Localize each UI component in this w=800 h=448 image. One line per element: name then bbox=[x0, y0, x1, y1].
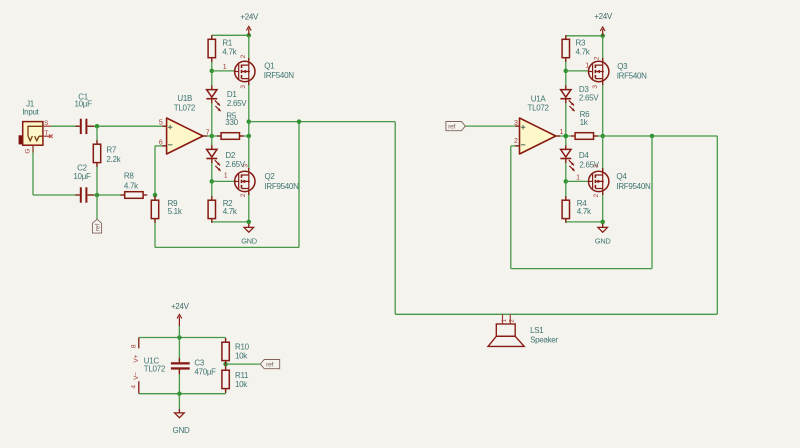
svg-text:V+: V+ bbox=[133, 355, 140, 363]
power +24V left bbox=[248, 29, 250, 36]
wire R3 top stub bbox=[565, 36, 567, 40]
svg-text:U1A: U1A bbox=[531, 95, 547, 104]
svg-text:TL072: TL072 bbox=[174, 104, 196, 113]
wire GND stub right bbox=[602, 222, 604, 228]
wire Q1 drain to +24V bbox=[248, 35, 250, 62]
wire U1B pin6 to feedback column bbox=[155, 145, 167, 147]
resistor R2 4.7k bbox=[211, 196, 213, 200]
node Q4 gate junction bbox=[564, 179, 569, 184]
svg-text:4.7k: 4.7k bbox=[577, 207, 592, 216]
svg-text:GND: GND bbox=[595, 236, 611, 245]
svg-text:5.1k: 5.1k bbox=[168, 207, 183, 216]
svg-text:TL072: TL072 bbox=[528, 103, 550, 112]
wire U1A feedback down bbox=[510, 146, 512, 269]
wire U1C top rail bbox=[139, 337, 226, 339]
svg-text:330: 330 bbox=[225, 118, 238, 127]
node Q4/R4 ground junction bbox=[600, 220, 605, 225]
wire R1 top stub bbox=[211, 35, 213, 39]
wire R11 bottom stub bbox=[225, 389, 227, 394]
wire ref output of divider bbox=[226, 363, 261, 365]
wire divider middle bbox=[225, 361, 227, 371]
wire speaker drop vertical bbox=[394, 122, 396, 315]
svg-text:R7: R7 bbox=[106, 145, 116, 154]
node C2/R7/R8/ref junction bbox=[95, 193, 100, 198]
wire U1A pin2 stub bbox=[511, 145, 520, 147]
wire R4 bottom bbox=[565, 219, 567, 222]
wire R7 top stub bbox=[96, 126, 98, 144]
node Q3 gate junction bbox=[564, 69, 569, 74]
svg-text:D2: D2 bbox=[225, 151, 235, 160]
svg-text:+24V: +24V bbox=[171, 302, 190, 311]
svg-text:ref: ref bbox=[95, 224, 102, 231]
transistor Q4 IRF9540N bbox=[602, 168, 604, 172]
node Q2/R2 ground junction bbox=[247, 220, 252, 225]
node +24V junction right bbox=[600, 34, 605, 39]
svg-text:U1B: U1B bbox=[177, 94, 192, 103]
svg-text:D1: D1 bbox=[227, 90, 237, 99]
svg-text:Speaker: Speaker bbox=[530, 335, 558, 344]
wire ref stub below C2 node bbox=[96, 195, 98, 220]
net label ref at U1A input bbox=[446, 122, 465, 131]
resistor R5 330 bbox=[217, 135, 221, 137]
wire output column to Q2 bbox=[248, 136, 250, 172]
node R8/R9/pin6 junction bbox=[153, 193, 158, 198]
wire Q3 source down right column bbox=[602, 81, 604, 136]
wire S input run J1 to U1B pin5 bbox=[51, 125, 80, 127]
svg-text:IRF9540N: IRF9540N bbox=[265, 182, 300, 191]
wire D4 to R4 bbox=[565, 160, 567, 200]
svg-text:4.7k: 4.7k bbox=[222, 48, 237, 57]
svg-text:TL072: TL072 bbox=[144, 364, 166, 373]
node Q1 gate junction bbox=[210, 69, 215, 74]
svg-text:R3: R3 bbox=[576, 39, 586, 48]
wire ref label to U1A pin3 bbox=[465, 125, 519, 127]
svg-text:3: 3 bbox=[514, 120, 518, 127]
wire +24V rail right bbox=[566, 35, 603, 37]
resistor R4 4.7k bbox=[565, 196, 567, 200]
wire speaker feed right bbox=[506, 313, 717, 315]
svg-text:2.65V: 2.65V bbox=[227, 99, 247, 108]
wire R1 bottom to D1 bbox=[211, 58, 213, 90]
wire D3 to right output node bbox=[565, 101, 567, 150]
wire Q2 gate bbox=[212, 180, 235, 182]
svg-text:2: 2 bbox=[514, 138, 518, 145]
speaker LS1 bbox=[502, 314, 504, 324]
wire Q1 source down / output column bbox=[248, 81, 250, 136]
wire U1A output to R6 bbox=[557, 135, 575, 137]
wire feedback return bottom bbox=[155, 246, 299, 248]
wire Q3 gate bbox=[566, 70, 589, 72]
node right feedback tap junction bbox=[650, 134, 655, 139]
wire R9 bottom to feedback return bbox=[154, 219, 156, 248]
svg-text:GND: GND bbox=[173, 426, 190, 435]
wire C3 bottom stub bbox=[178, 370, 180, 394]
wire U1B output to R5 bbox=[203, 135, 222, 137]
svg-text:Q3: Q3 bbox=[617, 62, 628, 71]
pin S J1 bbox=[43, 125, 51, 127]
svg-text:10µF: 10µF bbox=[74, 99, 92, 108]
resistor R3 4.7k bbox=[565, 35, 567, 39]
wire U1A feedback up to output bbox=[651, 136, 653, 269]
node input junction at C1/R7 bbox=[95, 124, 100, 129]
wire right column to Q4 bbox=[602, 136, 604, 172]
svg-text:IRF540N: IRF540N bbox=[264, 71, 294, 80]
capacitor C2 10uF bbox=[75, 194, 79, 196]
svg-text:6: 6 bbox=[159, 139, 163, 146]
node U1B output junction bbox=[210, 134, 215, 139]
power +24V U1C bbox=[178, 326, 180, 338]
op-amp U1A TL072 bbox=[515, 125, 519, 127]
resistor R7 2.2k bbox=[96, 140, 98, 144]
connector J1 audio jack Input bbox=[19, 135, 24, 144]
svg-text:Q1: Q1 bbox=[264, 61, 275, 70]
power +24V right bbox=[602, 29, 604, 36]
node +24V junction left bbox=[247, 33, 252, 38]
svg-text:7: 7 bbox=[206, 129, 210, 136]
wire R7 bottom stub bbox=[96, 163, 98, 195]
wire Q2 drain to ground node bbox=[248, 191, 250, 222]
wire right output drop vertical bbox=[716, 136, 718, 314]
svg-text:4.7k: 4.7k bbox=[576, 48, 591, 57]
resistor R8 4.7k bbox=[121, 194, 125, 196]
svg-text:G: G bbox=[24, 149, 31, 154]
svg-text:LS1: LS1 bbox=[530, 326, 544, 335]
node right output column junction bbox=[600, 134, 605, 139]
resistor R9 5.1k bbox=[154, 196, 156, 200]
wire Q1 gate bbox=[212, 70, 235, 72]
wire D1 to output node bbox=[211, 101, 213, 150]
resistor R1 4.7k bbox=[211, 35, 213, 39]
wire Q4 gate bbox=[566, 180, 589, 182]
svg-text:+24V: +24V bbox=[240, 13, 259, 22]
svg-text:1: 1 bbox=[576, 175, 580, 182]
wire Q4 drain to ground node bbox=[602, 191, 604, 222]
ground symbol U1C GND bbox=[178, 409, 180, 413]
svg-text:10k: 10k bbox=[235, 380, 248, 389]
transistor Q2 IRF9540N bbox=[248, 168, 250, 172]
svg-text:Input: Input bbox=[22, 107, 39, 116]
ground symbol right GND bbox=[602, 224, 604, 228]
svg-text:2.2k: 2.2k bbox=[106, 155, 121, 164]
wire D2 to R2 bbox=[211, 160, 213, 200]
svg-text:2.65V: 2.65V bbox=[579, 94, 599, 103]
svg-text:Q2: Q2 bbox=[265, 172, 276, 181]
svg-text:ref: ref bbox=[448, 124, 455, 131]
wire C3 top stub bbox=[178, 338, 180, 363]
net label ref at C2 node bbox=[92, 219, 101, 233]
node divider junction bbox=[223, 362, 228, 367]
wire right output run bbox=[603, 135, 718, 137]
LED D3 2.65V bbox=[565, 85, 567, 89]
wire GND stub left bbox=[248, 222, 250, 228]
svg-text:1: 1 bbox=[224, 173, 228, 180]
node C3 top junction bbox=[177, 335, 182, 340]
wire U1A feedback bottom bbox=[511, 268, 652, 270]
wire J1 ground to C2 bbox=[33, 194, 80, 196]
capacitor C1 10uF bbox=[75, 125, 79, 127]
svg-text:R10: R10 bbox=[235, 342, 250, 351]
svg-text:4.7k: 4.7k bbox=[223, 207, 238, 216]
svg-text:1k: 1k bbox=[580, 118, 589, 127]
wire +24V rail left bbox=[212, 34, 249, 36]
svg-text:ref: ref bbox=[266, 362, 273, 369]
svg-text:+24V: +24V bbox=[594, 12, 613, 21]
node right rail output junction bbox=[564, 134, 569, 139]
svg-text:1: 1 bbox=[560, 129, 564, 136]
node U1A output junction bbox=[564, 134, 569, 139]
resistor R10 10k bbox=[225, 338, 227, 342]
svg-text:5: 5 bbox=[159, 119, 163, 126]
op-amp U1B TL072 bbox=[162, 125, 166, 127]
node feedback tap junction bbox=[297, 119, 302, 124]
wire R3 bottom to D3 bbox=[565, 58, 567, 90]
svg-text:10µF: 10µF bbox=[73, 172, 91, 181]
net label ref at divider bbox=[260, 360, 279, 369]
svg-text:470µF: 470µF bbox=[194, 368, 216, 377]
ground symbol left GND bbox=[248, 224, 250, 228]
node Q2 gate junction bbox=[210, 179, 215, 184]
wire feedback return up to output bbox=[298, 122, 300, 248]
wire R10 top stub bbox=[225, 338, 227, 343]
wire left output to speaker drop bbox=[249, 121, 395, 123]
transistor Q1 IRF540N bbox=[248, 58, 250, 62]
LED D4 2.65V bbox=[565, 145, 567, 149]
wire Q3 drain to +24V bbox=[602, 36, 604, 62]
svg-text:GND: GND bbox=[241, 237, 257, 246]
LED D1 2.65V bbox=[211, 85, 213, 89]
capacitor C3 470uF polarized bbox=[178, 358, 180, 362]
svg-text:1: 1 bbox=[585, 63, 589, 70]
svg-text:4.7k: 4.7k bbox=[124, 181, 139, 190]
wire J1 ground down bbox=[32, 145, 34, 195]
wire C2 to R8 through node bbox=[88, 194, 125, 196]
svg-text:C3: C3 bbox=[194, 359, 204, 368]
pin G J1 bbox=[32, 145, 34, 152]
wire U1C bottom rail bbox=[139, 393, 226, 395]
node output column R5 junction bbox=[247, 134, 252, 139]
wire R5 right bbox=[240, 135, 249, 137]
svg-text:IRF540N: IRF540N bbox=[617, 71, 647, 80]
wire feedback column down to R9 bbox=[154, 146, 156, 200]
resistor R11 10k bbox=[225, 366, 227, 370]
svg-text:R1: R1 bbox=[222, 39, 232, 48]
svg-text:IRF9540N: IRF9540N bbox=[616, 182, 651, 191]
wire R6 right bbox=[594, 135, 603, 137]
svg-text:T: T bbox=[44, 130, 48, 137]
wire GND stub U1C bbox=[178, 394, 180, 413]
op-amp power unit U1C TL072 bbox=[138, 338, 140, 349]
wire speaker feed left bbox=[395, 313, 506, 315]
LED D2 2.65V bbox=[211, 145, 213, 149]
wire R2 bottom bbox=[211, 219, 213, 222]
svg-text:D4: D4 bbox=[579, 151, 589, 160]
node C3 bottom junction bbox=[177, 391, 182, 396]
svg-text:Q4: Q4 bbox=[616, 172, 627, 181]
svg-text:R11: R11 bbox=[235, 371, 249, 380]
pin T J1 unconnected bbox=[43, 135, 51, 137]
svg-text:R8: R8 bbox=[124, 172, 134, 181]
resistor R6 1k bbox=[571, 135, 575, 137]
svg-text:1: 1 bbox=[223, 64, 227, 71]
node output column upper junction bbox=[247, 119, 252, 124]
transistor Q3 IRF540N bbox=[602, 58, 604, 62]
svg-text:V−: V− bbox=[133, 372, 140, 380]
svg-text:10k: 10k bbox=[235, 352, 248, 361]
